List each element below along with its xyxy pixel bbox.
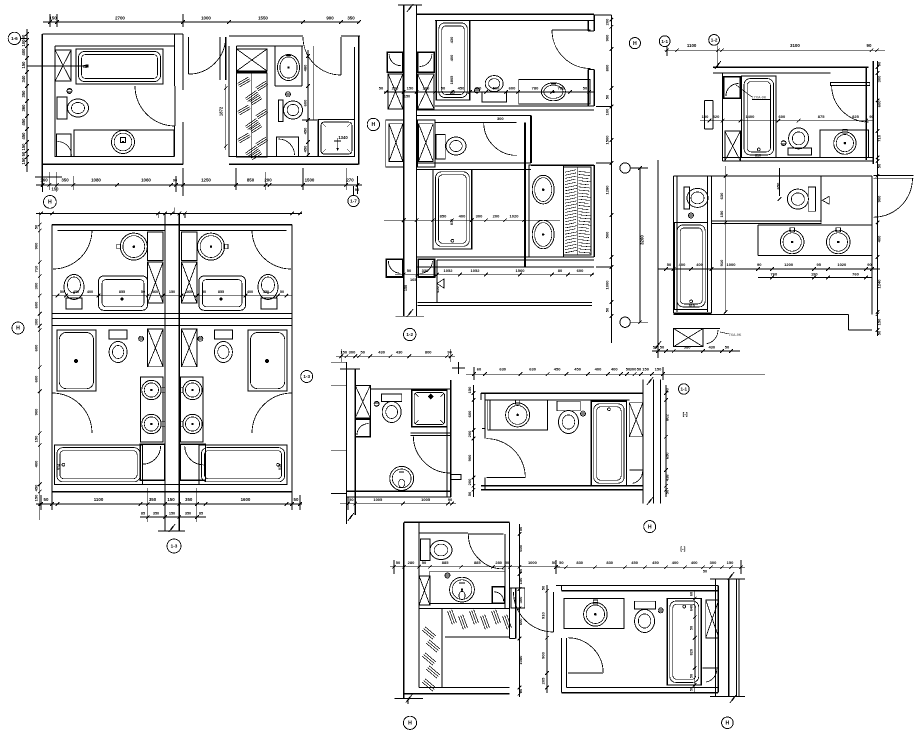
svg-text:50: 50 [349,497,354,502]
top-middle room3 walls [417,168,531,170]
svg-text:1080: 1080 [518,655,523,665]
svg-text:300: 300 [34,282,39,289]
svg-text:85: 85 [141,512,145,516]
top-middle room1 toilet [482,92,507,102]
bottom-right walls [556,585,718,587]
mid-left interior dim chain row1 [52,295,292,297]
svg-text:1280: 1280 [605,185,610,195]
top-right round basin 2 [827,230,851,254]
unit B square shower cabin [318,120,354,157]
unit B corridor door [189,37,226,74]
svg-text:17XA-9K: 17XA-9K [752,95,767,99]
middle unit left edge extension lines [331,362,346,364]
mid-left pedestal sink R [258,275,278,300]
top-right middle room toilet [808,187,815,211]
top-right vertical dim 910 [725,166,727,313]
svg-text:910: 910 [719,259,724,266]
svg-text:1250: 1250 [201,177,211,182]
svg-text:50: 50 [877,330,882,335]
svg-text:90: 90 [447,350,452,355]
svg-text:450: 450 [21,132,26,140]
top-right bottom hatch box [674,329,703,347]
svg-text:50: 50 [407,268,412,273]
svg-text:150: 150 [467,386,472,393]
bottom-right floor drain [658,608,663,613]
svg-text:1100: 1100 [94,497,104,502]
svg-text:200: 200 [493,214,500,219]
axis bubble 1-2 below shaft [404,328,416,340]
svg-text:280: 280 [408,560,415,565]
svg-text:900: 900 [326,16,334,21]
bottom-right left dimension chain [546,585,548,693]
svg-text:60: 60 [21,34,26,39]
svg-text:810: 810 [755,154,761,158]
top-middle interior dimension chain 50/200/150/200/50 [384,91,594,93]
urinal symbol [822,196,829,204]
top-right lower dim chain 400/400/1000/1200/1020 [658,268,880,270]
svg-text:1000: 1000 [727,262,737,267]
middle unit right ledge [451,475,461,480]
svg-text:330: 330 [422,268,429,273]
bottom-middle walls [404,521,510,523]
svg-text:H: H [648,524,652,530]
bottom-right counter [564,599,624,629]
mid-left counter basin L [99,276,148,310]
top-middle room1 door [552,29,591,31]
top-middle counter with two basins [529,165,564,257]
svg-text:850: 850 [440,214,447,219]
unit A left dimension chain [26,29,28,172]
top-right second row bathtub [675,222,708,309]
top-right bathtub [742,76,776,157]
svg-text:200: 200 [423,85,430,90]
unit A bottom dimension chain 350/1080/1060 [36,184,230,186]
top-middle shower boxes by shaft [387,52,403,72]
svg-text:1240: 1240 [877,279,882,289]
unit A walls [42,33,183,35]
top-right second row toilet [684,187,689,209]
unit B partition dim labels [307,50,309,155]
top-right bottom dim chain 580/430 [652,350,740,352]
top-right corner shower [724,77,741,98]
svg-text:50: 50 [725,345,730,350]
mid-left piers row2 [148,329,163,367]
mid-left row2 showers/tubs [57,330,96,391]
svg-text:1400: 1400 [745,114,755,119]
svg-text:1500: 1500 [305,177,315,182]
unit A floor drain [67,89,72,94]
svg-text:50: 50 [559,560,564,565]
svg-text:150: 150 [518,577,523,584]
svg-text:50: 50 [689,674,693,678]
svg-text:85: 85 [199,512,203,516]
svg-text:916: 916 [278,464,282,470]
svg-text:600: 600 [577,268,584,273]
svg-text:50: 50 [360,350,365,355]
mid-right right dimension chain [665,385,667,497]
svg-text:400: 400 [34,460,39,467]
bottom-middle wash basin [450,577,475,602]
svg-text:885: 885 [474,560,481,565]
mid-right bathtub [591,401,626,485]
svg-text:2700: 2700 [115,16,125,21]
svg-text:50: 50 [540,585,545,590]
svg-text:150: 150 [34,494,39,501]
svg-text:150: 150 [719,210,724,217]
mid-left room1R door [252,230,291,269]
top-right top dimension chain 1100/3100/90 [665,49,885,51]
svg-text:50: 50 [34,224,39,229]
svg-text:50: 50 [689,626,693,630]
bottom-right corner shower [703,667,719,669]
svg-text:200: 200 [605,18,610,25]
svg-text:100: 100 [702,114,709,119]
svg-text:1005: 1005 [373,497,383,502]
svg-text:300: 300 [710,560,717,565]
svg-text:50: 50 [877,163,882,168]
unit A corner shelf [57,134,72,157]
svg-text:90: 90 [867,43,872,48]
svg-text:50: 50 [141,290,145,294]
mid-right left jog [480,393,482,400]
top-right second row left room walls [673,175,711,177]
bottom-right corridor wall [715,579,717,697]
mid-left secondary dim 85/150/85 [140,516,206,518]
unit B toilet [279,100,283,121]
mid-left axis bubble H left [12,322,24,334]
mid-right top dimension chain 630/630/450/450/400/400/300/150/150 [466,373,765,375]
svg-text:150: 150 [655,367,662,372]
unit A bathtub drain leader [27,65,87,67]
middle unit bottom dim chain 1005/1005 [340,503,456,505]
mid-left room1L door [53,230,92,269]
middle unit pedestal basin [390,466,414,490]
svg-text:400: 400 [87,290,93,294]
svg-text:200: 200 [392,85,399,90]
svg-text:438: 438 [665,474,670,481]
svg-text:80: 80 [558,268,563,273]
middle unit walls [355,384,370,386]
svg-text:600: 600 [779,114,786,119]
top-right axis bubble 1-2 [709,35,720,46]
mid-left axis bubble 1-3 bottom [167,539,181,553]
overall dim 3260 with node circles [620,163,630,173]
top-right outside door [874,175,914,177]
svg-text:1550: 1550 [258,16,268,21]
svg-text:50: 50 [605,307,610,312]
svg-text:1200: 1200 [784,262,794,267]
top-middle bottom shower pans [386,259,402,277]
mid-right toilet [557,401,580,411]
svg-text:1600: 1600 [241,497,251,502]
svg-text:50: 50 [44,497,49,502]
svg-text:50: 50 [660,345,665,350]
unit B wash basin oval [278,55,300,81]
svg-text:150: 150 [727,560,734,565]
svg-text:50: 50 [518,568,523,573]
svg-text:802: 802 [665,413,670,420]
unit A vanity counter [74,130,174,157]
svg-text:710: 710 [34,265,39,272]
mid-left round sinks center L [142,380,161,399]
mid-right walls [481,392,643,394]
svg-text:50: 50 [518,526,523,531]
bottom-right wall pier [706,600,719,638]
svg-text:50: 50 [583,85,588,90]
svg-text:430: 430 [708,345,715,350]
mid-right axis bubble H [679,384,690,395]
svg-text:400: 400 [459,214,466,219]
svg-text:600: 600 [34,375,39,382]
unit A wash basin [112,131,135,154]
top-right floor drain room1 [781,141,786,146]
svg-text:450: 450 [34,484,39,491]
unit B basin niche [274,46,276,86]
svg-text:300: 300 [518,596,523,603]
svg-text:270: 270 [346,177,354,182]
top-right wall pier [725,131,741,161]
svg-text:350: 350 [185,512,191,516]
svg-text:50: 50 [605,94,610,99]
svg-text:60: 60 [477,367,482,372]
top-right long counter [758,224,872,226]
mid-right corner shower [629,469,643,471]
svg-text:400: 400 [696,262,703,267]
svg-text:630: 630 [499,367,506,372]
svg-text:400: 400 [679,262,686,267]
mid-left toilet row2 L [109,330,127,339]
top-right axis bubble 1-1 [659,36,670,47]
top-middle room2 walls [417,114,531,116]
svg-text:1-3: 1-3 [171,544,178,549]
middle unit door [413,436,451,474]
mid-right left dimension chain [473,385,475,497]
svg-text:1-6: 1-6 [11,36,18,41]
svg-text:150: 150 [642,367,649,372]
mid-left pedestal sink L [64,275,84,300]
svg-text:205: 205 [540,677,545,684]
unit B interior partition [313,46,315,120]
svg-text:320: 320 [713,114,720,119]
svg-text:1560: 1560 [516,268,526,273]
unit B door [340,37,342,75]
svg-text:1060: 1060 [141,178,151,183]
svg-text:200: 200 [467,478,472,485]
bottom-right toilet [635,601,656,609]
top-right floor drain 2 [689,213,694,218]
svg-text:450: 450 [303,127,308,134]
svg-text:640: 640 [689,605,693,611]
svg-text:50: 50 [467,491,472,496]
svg-text:H: H [48,200,52,206]
svg-text:360: 360 [152,290,158,294]
svg-text:900: 900 [34,408,39,415]
svg-text:50: 50 [280,290,284,294]
mid-left bathtub R [199,445,287,484]
top-middle room1 bathtub [436,20,470,100]
svg-text:830: 830 [576,560,583,565]
svg-text:150: 150 [21,143,26,151]
svg-text:150: 150 [404,95,410,99]
svg-text:90: 90 [173,179,177,183]
bottom-right axis bubble H [722,717,734,729]
svg-text:3100: 3100 [790,43,800,48]
svg-text:760: 760 [852,271,859,276]
mid-left bottom shower pans [140,444,164,480]
top-middle bottom area walls [437,259,594,261]
svg-text:450: 450 [652,560,659,565]
unit A bathtub [76,49,163,84]
unit A door [135,86,175,126]
unit A toilet [57,97,67,119]
svg-text:600: 600 [518,544,523,551]
unit A wall pier [55,50,71,81]
svg-text:630: 630 [529,367,536,372]
svg-text:400: 400 [672,560,679,565]
svg-text:165: 165 [410,278,416,282]
svg-text:710: 710 [877,134,882,141]
top-right interior dimension chain [700,120,873,122]
top-middle basin 2 [532,220,554,249]
top-right rooms separation walls [711,220,821,222]
svg-text:875: 875 [818,114,825,119]
svg-text:50: 50 [665,489,670,494]
svg-text:50: 50 [505,560,510,565]
svg-text:1500: 1500 [605,135,610,145]
svg-text:340: 340 [21,75,26,83]
bottom-middle door [468,533,503,535]
svg-text:50: 50 [60,290,64,294]
svg-text:350: 350 [149,497,157,502]
svg-text:H: H [372,122,376,128]
svg-text:150: 150 [21,157,26,165]
top-middle linen closet hatch [564,167,591,255]
svg-text:1-2: 1-2 [406,332,413,337]
bottom-middle corner shower [492,587,505,604]
mid-left bottom dim chain 1100/350/150/350/1600 [36,503,302,505]
svg-text:1080: 1080 [91,178,101,183]
svg-text:400: 400 [449,55,454,62]
svg-text:450: 450 [263,290,269,294]
svg-text:350: 350 [61,178,69,183]
axis bubble H top-middle [629,38,640,49]
bottom-middle main dimension chain 885/885/280/1000 [390,566,560,568]
svg-text:500: 500 [605,231,610,238]
mid-left round basin 1R [198,233,225,260]
svg-text:160: 160 [40,178,48,183]
top-right left edge line [657,160,659,349]
svg-text:1000: 1000 [528,560,538,565]
svg-text:1020: 1020 [837,262,847,267]
svg-text:300: 300 [497,116,504,121]
svg-text:7XA-9K: 7XA-9K [729,333,742,337]
svg-text:300: 300 [34,318,39,325]
svg-text:450: 450 [631,560,638,565]
unit B axis bubble H [367,118,379,130]
svg-text:810: 810 [689,304,695,308]
svg-text:90: 90 [869,115,873,119]
top-right right dim chain [877,61,879,336]
svg-text:900: 900 [540,651,545,658]
mid-left toilet row2 R [214,330,232,339]
mid-right wash basin [506,403,530,427]
svg-text:1-2: 1-2 [711,38,718,43]
bottom-middle floor drain [445,573,450,578]
svg-text:400: 400 [21,48,26,56]
mid-left sink columns [140,377,163,442]
bottom-middle closet hatching [441,608,443,687]
svg-text:450: 450 [574,367,581,372]
svg-text:1-1: 1-1 [661,39,668,44]
bottom-middle wall pier [419,576,430,605]
mid-left middle band walls [52,313,292,315]
svg-text:600: 600 [303,99,308,106]
svg-text:100: 100 [21,39,26,47]
svg-text:350: 350 [185,497,193,502]
svg-text:50: 50 [202,290,206,294]
unit B floor drain [286,92,291,97]
svg-text:90: 90 [757,262,762,267]
top-right wash basin room1 [834,132,856,154]
top-middle basin 1 [532,175,554,204]
svg-text:600: 600 [34,344,39,351]
svg-text:90: 90 [448,497,453,502]
svg-text:910: 910 [540,611,545,618]
middle unit shower cabin [412,390,447,427]
bottom-middle toilet [421,539,430,560]
svg-text:450: 450 [73,290,79,294]
unit B wall pier [237,49,267,71]
middle unit band break [348,513,354,521]
svg-text:825: 825 [852,114,859,119]
top-middle bottom dimension chain [395,274,594,276]
svg-text:1052: 1052 [471,268,481,273]
svg-text:900: 900 [877,195,882,202]
svg-text:90: 90 [867,262,872,267]
svg-text:150: 150 [49,16,57,21]
svg-text:430: 430 [378,350,385,355]
svg-text:150: 150 [407,85,414,90]
svg-text:450: 450 [303,145,308,152]
top-middle room1 counter [519,80,590,105]
svg-text:150: 150 [167,497,175,502]
svg-text:50: 50 [703,570,707,574]
svg-text:600: 600 [467,410,472,417]
svg-text:1000: 1000 [201,16,211,21]
svg-text:[-]: [-] [680,547,685,553]
svg-text:350: 350 [347,16,355,21]
svg-text:1340: 1340 [338,135,348,140]
svg-text:50: 50 [665,387,670,392]
bottom-middle left band [403,522,405,698]
svg-text:150: 150 [404,285,408,291]
svg-text:50: 50 [422,560,427,565]
svg-text:50: 50 [396,560,401,565]
mid-right axis bubble H bottom [644,521,656,533]
svg-text:350: 350 [21,90,26,98]
svg-text:350: 350 [153,512,159,516]
svg-text:1805: 1805 [449,75,454,84]
mid-left left dimension chain [39,212,41,520]
top-middle wall piers row1 [388,74,403,109]
svg-text:50: 50 [294,497,299,502]
svg-text:300: 300 [877,75,882,82]
unit A axis bubble 1-6 [8,32,20,44]
svg-text:400: 400 [611,367,618,372]
mid-left axis bubble 1-3 right [301,371,313,383]
middle unit wall pier [355,385,370,418]
svg-text:50: 50 [637,367,642,372]
